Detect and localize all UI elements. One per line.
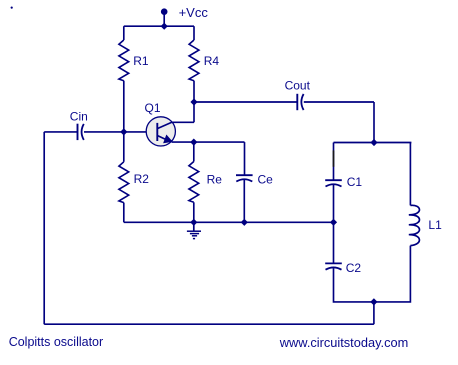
wire R2 bottom lead bbox=[123, 203, 125, 223]
wire C1 top lead bbox=[333, 143, 335, 181]
stray dot top-left bbox=[11, 7, 13, 9]
wire L1 top lead bbox=[409, 143, 411, 206]
wire Ce top lead bbox=[244, 142, 246, 175]
wire Re top lead bbox=[193, 142, 195, 161]
svg-text:+Vcc: +Vcc bbox=[179, 5, 209, 20]
ground bbox=[187, 222, 201, 238]
wire feedback bottom bbox=[44, 323, 374, 325]
node tank bottom junction bbox=[371, 299, 376, 304]
wire Cout right bbox=[304, 101, 374, 103]
wire base bbox=[124, 131, 158, 133]
resistor Re bbox=[189, 162, 199, 203]
wire R2 top lead bbox=[123, 132, 125, 162]
svg-text:Cin: Cin bbox=[70, 110, 88, 124]
wire C2 top lead bbox=[333, 222, 335, 263]
wire feedback drop bbox=[373, 302, 375, 324]
wire C2 bottom lead bbox=[334, 268, 374, 302]
wire tank top rail bbox=[334, 142, 412, 144]
wire Cin right bbox=[84, 131, 124, 133]
svg-text:R1: R1 bbox=[133, 54, 149, 68]
capacitor Ce bbox=[236, 175, 253, 181]
svg-text:Q1: Q1 bbox=[145, 101, 161, 115]
svg-text:C1: C1 bbox=[347, 175, 363, 189]
svg-text:C2: C2 bbox=[346, 261, 362, 275]
wire bottom rail bbox=[124, 221, 334, 223]
resistor R2 bbox=[119, 162, 129, 203]
resistor R4 bbox=[189, 40, 199, 81]
wire R4 bottom lead bbox=[193, 81, 195, 102]
svg-text:Colpitts oscillator: Colpitts oscillator bbox=[9, 335, 103, 349]
capacitor C2 bbox=[325, 263, 342, 269]
svg-text:Cout: Cout bbox=[285, 78, 311, 92]
wire R1 bottom lead bbox=[123, 81, 125, 132]
node collector junction bbox=[191, 99, 196, 104]
wire R1 top lead bbox=[123, 26, 125, 40]
inductor L1 bbox=[409, 205, 420, 245]
node ground junction bbox=[191, 220, 196, 225]
wire L1 bottom lead bbox=[374, 246, 411, 302]
wire Re bottom lead bbox=[193, 202, 195, 222]
wire R4 top lead bbox=[193, 26, 195, 40]
node Ce bottom junction bbox=[242, 220, 247, 225]
wire collector drop bbox=[193, 102, 195, 122]
svg-text:Ce: Ce bbox=[258, 173, 274, 187]
node Vcc rail junction bbox=[162, 24, 167, 29]
wire tank feed drop bbox=[373, 102, 375, 143]
node base junction bbox=[121, 129, 126, 134]
resistor R1 bbox=[119, 40, 129, 81]
svg-text:Re: Re bbox=[207, 173, 223, 187]
capacitor Cin bbox=[78, 124, 84, 140]
wire emitter bbox=[172, 141, 245, 143]
wire top rail bbox=[124, 25, 194, 27]
node tank top junction bbox=[371, 140, 376, 145]
transistor Q1 bbox=[146, 117, 175, 146]
wire feedback left riser bbox=[43, 132, 45, 324]
capacitor Cout bbox=[297, 94, 303, 110]
capacitor C1 bbox=[325, 180, 342, 186]
node emitter junction bbox=[191, 140, 196, 145]
wire Ce bottom lead bbox=[243, 180, 245, 222]
wire C1 bottom lead bbox=[333, 185, 335, 222]
svg-text:L1: L1 bbox=[428, 218, 442, 232]
wire Cout left bbox=[194, 101, 297, 103]
svg-text:www.circuitstoday.com: www.circuitstoday.com bbox=[279, 335, 408, 350]
svg-text:R2: R2 bbox=[134, 172, 150, 186]
wire Vcc stub bbox=[163, 14, 165, 27]
svg-text:R4: R4 bbox=[204, 54, 220, 68]
wire collector horizontal bbox=[172, 121, 194, 123]
wire Cin left bbox=[44, 131, 77, 133]
node tank mid junction bbox=[331, 220, 336, 225]
wire C1 top lead black overpaint bbox=[333, 150, 335, 166]
+Vcc terminal bbox=[161, 8, 168, 15]
